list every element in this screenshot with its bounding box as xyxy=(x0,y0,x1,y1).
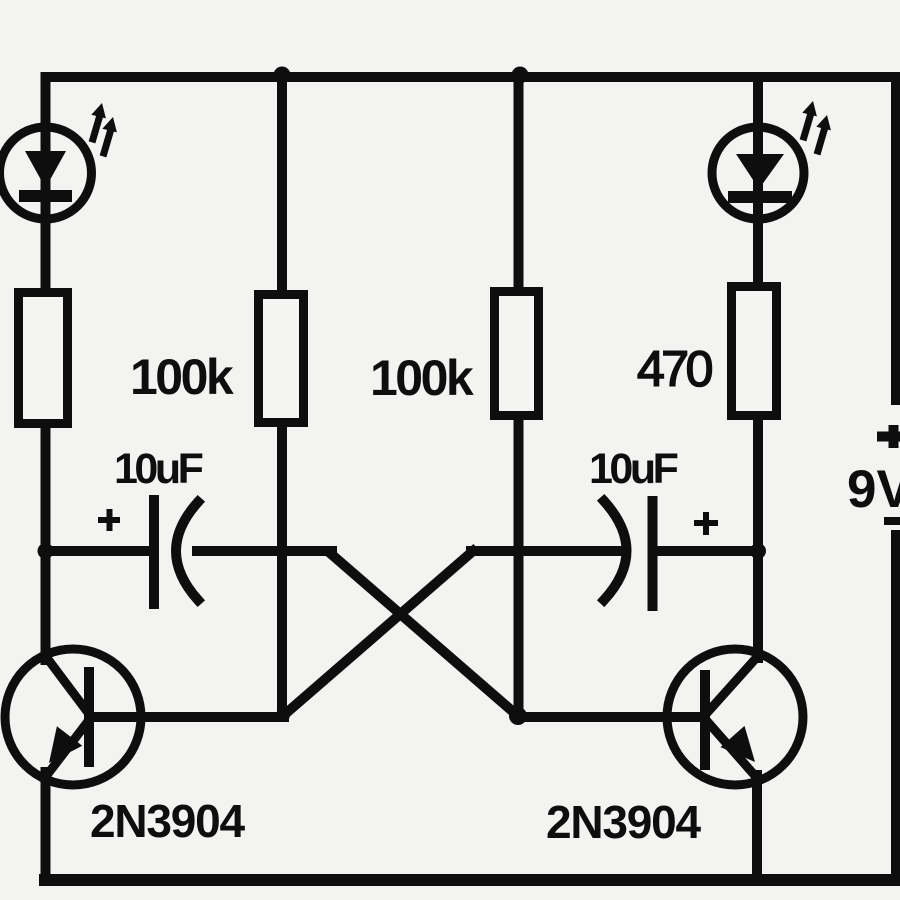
wire Q2 base xyxy=(518,712,702,722)
wire C1 to bend xyxy=(197,546,332,556)
node dot R4 column / coupling wire xyxy=(750,543,766,559)
LED D2 xyxy=(712,101,831,219)
wire bend to capacitor C2 xyxy=(471,546,622,556)
node junction Q1 base node xyxy=(276,708,290,722)
svg-text:470: 470 xyxy=(637,341,712,397)
resistor R4 xyxy=(732,287,777,416)
wire bottom ground rail xyxy=(45,874,899,886)
wire R2 down to Q1 base node xyxy=(277,424,287,714)
wire cross-coupling diagonal B xyxy=(284,551,473,715)
LED D1 xyxy=(0,103,117,219)
svg-text:9V: 9V xyxy=(847,460,900,519)
resistor R3 xyxy=(495,292,539,416)
battery plus terminal mark xyxy=(877,425,900,448)
node dot top rail / R3 column xyxy=(512,67,529,84)
node dot left column / C1 wire xyxy=(38,543,54,559)
transistor Q2 xyxy=(667,649,803,785)
node dot Q2 base node xyxy=(509,707,527,725)
wire R3 down to Q2 base node xyxy=(514,419,524,710)
svg-text:2N3904: 2N3904 xyxy=(546,796,702,848)
wire battery positive lead (right edge top) xyxy=(891,77,900,400)
capacitor C2 xyxy=(604,501,718,606)
transistor Q1 xyxy=(5,649,141,785)
svg-text:10uF: 10uF xyxy=(114,445,203,493)
wire battery negative lead (right edge bottom) xyxy=(891,535,900,880)
resistor R1 xyxy=(19,293,68,424)
node dot top rail / R2 column xyxy=(274,67,291,84)
svg-text:100k: 100k xyxy=(130,349,234,405)
wire R1 to Q1 collector xyxy=(41,424,51,660)
svg-text:10uF: 10uF xyxy=(589,445,678,493)
wire cross-coupling diagonal A xyxy=(330,553,518,716)
wire V+ rail through LED D1 to R1 xyxy=(41,77,51,292)
wire top rail to R3 xyxy=(514,77,524,291)
battery minus terminal mark xyxy=(884,517,900,525)
wire top rail to R2 xyxy=(277,77,287,294)
wire C2 to R4 column xyxy=(657,546,758,556)
wire Q2 emitter to ground rail xyxy=(752,775,762,880)
wire R4 to Q2 collector xyxy=(753,418,763,658)
wire V+ rail through LED D2 to R4 xyxy=(753,77,763,286)
wire top supply rail xyxy=(46,72,900,82)
resistor R2 xyxy=(259,295,304,423)
svg-text:100k: 100k xyxy=(370,350,474,406)
wire node to capacitor C1 xyxy=(46,546,151,556)
capacitor C1 xyxy=(98,500,198,604)
wire Q1 emitter to ground rail xyxy=(41,772,51,880)
svg-text:2N3904: 2N3904 xyxy=(90,795,246,847)
wire Q1 base xyxy=(92,712,284,722)
